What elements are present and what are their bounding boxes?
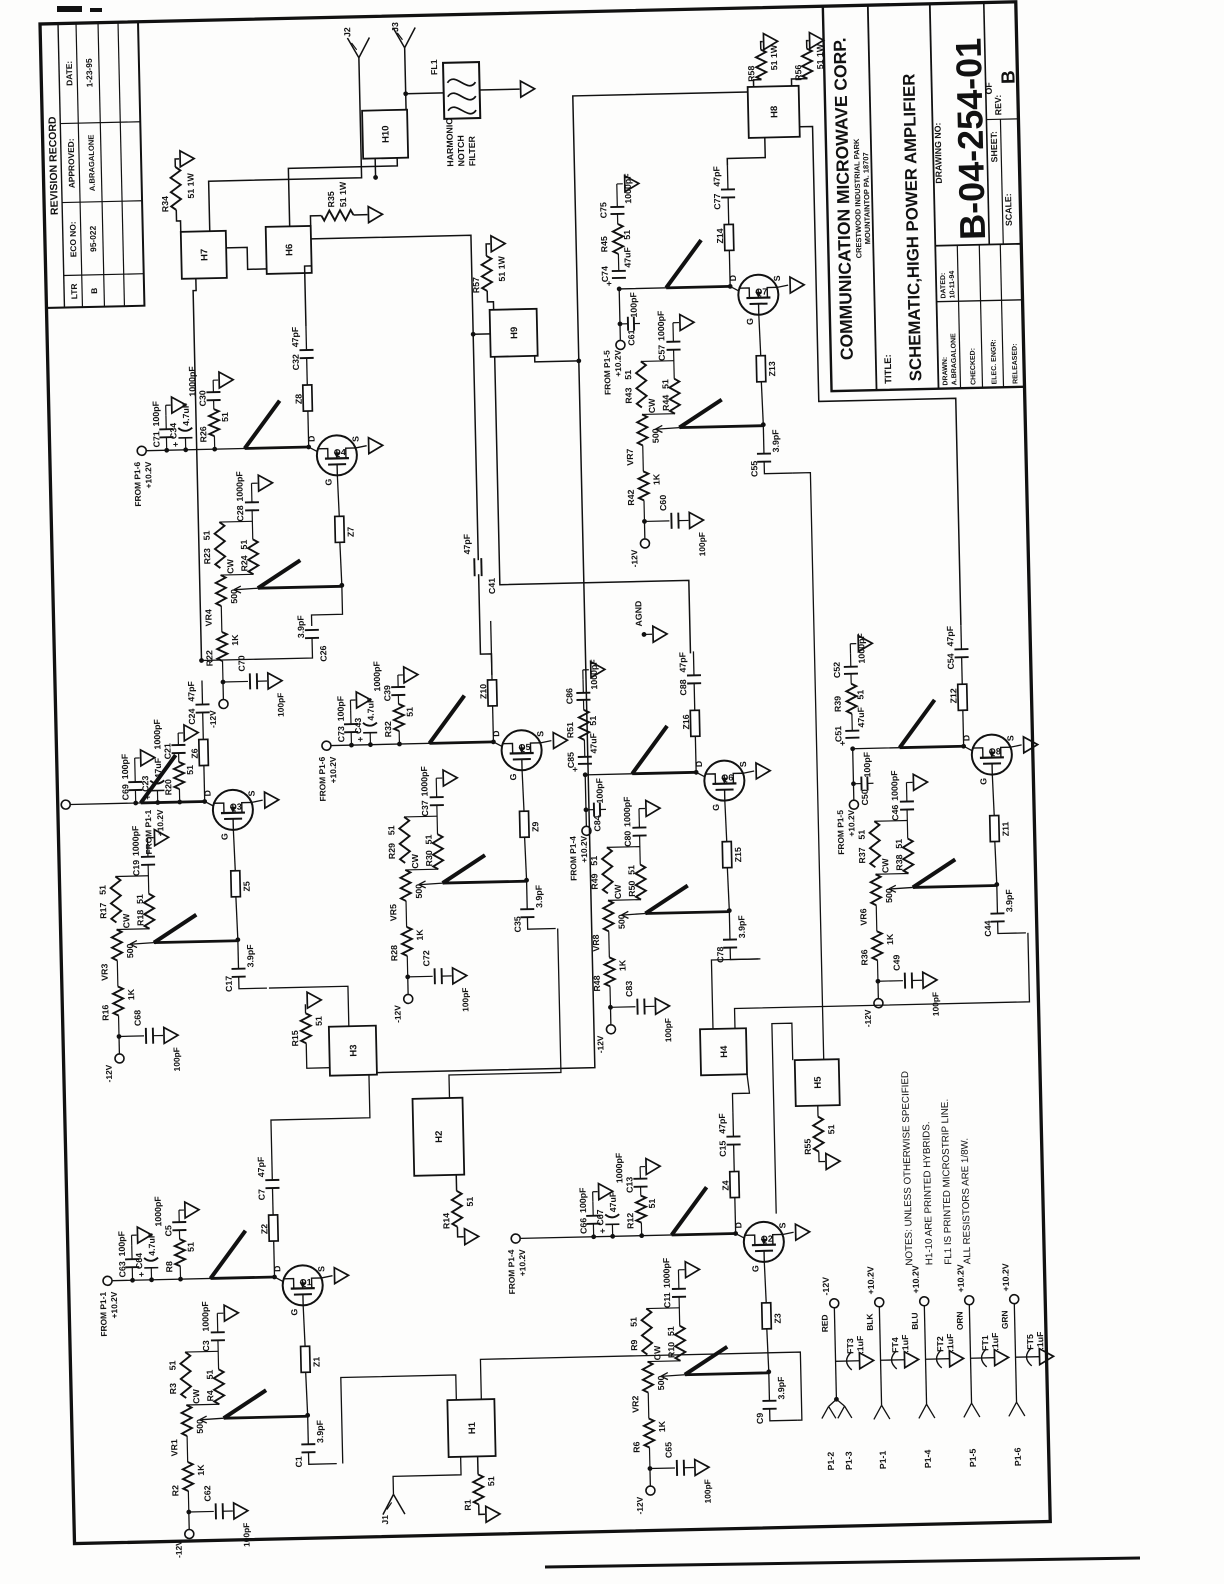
thick wiper bus: [655, 399, 764, 433]
strip line Z12: [948, 684, 968, 746]
svg-text:-12V: -12V: [173, 1540, 183, 1558]
svg-text:H3: H3: [348, 1044, 359, 1056]
ground S: [265, 792, 279, 808]
node D Q5: [491, 730, 503, 747]
resistor R29 51: [386, 817, 410, 864]
wire H4 to Q8 gate: [733, 933, 1030, 1029]
wire H2 to Q5 gate: [446, 928, 562, 1097]
svg-text:G: G: [508, 773, 518, 780]
svg-text:R50: R50: [627, 880, 637, 896]
strip line Z4: [720, 1171, 740, 1233]
svg-text:R6: R6: [631, 1441, 641, 1453]
svg-text:3.9pF: 3.9pF: [245, 944, 256, 968]
svg-text:Z15: Z15: [733, 847, 743, 862]
svg-text:C11: C11: [662, 1292, 672, 1308]
svg-text:P1-5: P1-5: [968, 1448, 978, 1467]
svg-text:HARMONIC: HARMONIC: [444, 118, 455, 167]
svg-text:51 1W: 51 1W: [815, 43, 826, 69]
resistor R56 51 1W: [791, 43, 826, 86]
terminal -12V: [821, 1277, 839, 1309]
svg-text:51: 51: [626, 865, 636, 875]
svg-text:R30: R30: [424, 850, 434, 866]
filter FL1: [405, 58, 480, 119]
svg-text:51: 51: [647, 1198, 657, 1208]
thick wiper bus: [621, 885, 730, 919]
potentiometer VR6 500: [857, 858, 895, 932]
svg-text:1K: 1K: [651, 473, 661, 485]
terminal +10.2V from P1-5: [835, 800, 860, 855]
capacitor C68 100pF: [118, 1009, 181, 1073]
capacitor C3 1000pF: [184, 1300, 226, 1370]
potentiometer VR3 500: [98, 913, 136, 987]
terminal -12V Q7: [628, 519, 650, 568]
svg-text:C30: C30: [197, 390, 207, 406]
capacitor C65 100pF: [649, 1441, 712, 1505]
svg-text:OF: OF: [984, 82, 994, 95]
svg-text:+10.2V: +10.2V: [910, 1265, 921, 1293]
strip line Z13: [755, 314, 777, 381]
svg-text:H4: H4: [719, 1045, 730, 1058]
svg-text:C35: C35: [512, 916, 522, 932]
thick wiper bus: [660, 1346, 769, 1380]
capacitor C66 100pF: [578, 1187, 601, 1240]
svg-text:FROM P1-1: FROM P1-1: [98, 1291, 109, 1336]
svg-text:H1: H1: [467, 1421, 478, 1434]
capacitor C32 47pF: [290, 326, 314, 386]
drawn cell: [940, 271, 959, 386]
ground R58: [760, 33, 777, 49]
svg-text:P1-1: P1-1: [878, 1450, 888, 1469]
svg-text:1K: 1K: [657, 1420, 667, 1432]
capacitor C77 47pF: [711, 165, 735, 225]
svg-text:G: G: [289, 1308, 299, 1315]
ground R15: [305, 992, 321, 1013]
svg-text:R22: R22: [204, 650, 214, 666]
capacitor C61 100pF: [619, 291, 640, 345]
stray page edge line bottom: [545, 1558, 1140, 1567]
svg-text:C68: C68: [132, 1010, 142, 1026]
resistor R9 51: [628, 1308, 652, 1355]
pin P1-6: [999, 1304, 1026, 1466]
svg-text:3.9pF: 3.9pF: [776, 1376, 787, 1400]
svg-text:C75: C75: [598, 202, 608, 218]
svg-text:Z6: Z6: [189, 748, 199, 759]
svg-text:4.7uF: 4.7uF: [146, 1232, 157, 1256]
checked cell: [970, 348, 978, 385]
svg-text:VR3: VR3: [99, 963, 109, 980]
resistor R24 51: [220, 539, 259, 575]
ground R14: [457, 1226, 478, 1244]
node gate Q5: [523, 837, 529, 882]
svg-text:.1uF: .1uF: [945, 1333, 955, 1352]
ground R34: [175, 151, 194, 167]
thick diagonal: [899, 700, 936, 748]
resistor R17 51: [97, 876, 121, 923]
svg-text:C72: C72: [421, 950, 431, 966]
feedthrough FT4 .1uF: [880, 1334, 919, 1370]
capacitor C72 100pF: [407, 949, 470, 1013]
ground S: [756, 763, 770, 779]
potentiometer VR5 500: [387, 853, 425, 927]
label G: [978, 778, 988, 785]
svg-text:C37: C37: [420, 800, 430, 816]
wire H10 top input: [373, 158, 378, 180]
svg-text:1000pF: 1000pF: [661, 1257, 672, 1288]
wire Q2 out to H4: [732, 1074, 750, 1112]
terminal -12V Q2: [634, 1466, 656, 1515]
svg-text:51: 51: [186, 1242, 196, 1252]
svg-text:100pF: 100pF: [241, 1523, 252, 1547]
wire H1 to Q2 gate: [480, 1352, 801, 1427]
svg-text:51 1W: 51 1W: [496, 255, 507, 281]
ground S: [334, 1267, 348, 1283]
terminal +10.2V: [955, 1264, 973, 1305]
node gate Q8: [993, 841, 999, 886]
resistor R1 51: [462, 1456, 497, 1511]
label S: [316, 1266, 332, 1278]
capacitor C83 100pF: [610, 980, 673, 1044]
svg-text:Q5: Q5: [518, 742, 530, 752]
svg-text:S: S: [246, 790, 256, 796]
svg-text:+10.2V: +10.2V: [955, 1264, 966, 1292]
svg-text:C21: C21: [162, 743, 172, 759]
svg-text:H9: H9: [509, 327, 520, 339]
svg-text:B-04-254-01: B-04-254-01: [948, 37, 994, 240]
svg-text:+10.2V: +10.2V: [517, 1249, 528, 1276]
pin P1-2/P1-3: [821, 1397, 854, 1471]
svg-text:47pF: 47pF: [945, 625, 955, 646]
svg-text:C32: C32: [291, 354, 301, 370]
rev cell: [992, 70, 1020, 115]
svg-text:FT1: FT1: [980, 1335, 990, 1351]
svg-text:DATED:: DATED:: [940, 273, 948, 299]
svg-text:C5: C5: [163, 1225, 173, 1237]
potentiometer VR7 500: [624, 398, 662, 472]
svg-text:R24: R24: [239, 555, 249, 571]
svg-text:51: 51: [486, 1476, 496, 1486]
svg-text:Z9: Z9: [530, 821, 540, 832]
capacitor C44 3.9pF: [982, 884, 1015, 937]
svg-text:FT2: FT2: [935, 1336, 945, 1352]
ground: [135, 750, 155, 768]
node gate Q1: [304, 1372, 310, 1417]
ground: [147, 829, 168, 845]
wire H5 to Q7 gate: [792, 473, 823, 1060]
node D Q2: [733, 1222, 745, 1239]
svg-text:H10: H10: [380, 125, 391, 143]
svg-text:FILTER: FILTER: [467, 135, 478, 166]
svg-text:51: 51: [202, 530, 212, 540]
svg-text:FT4: FT4: [890, 1337, 900, 1353]
svg-text:R14: R14: [441, 1213, 451, 1229]
strip line Z6: [189, 739, 209, 801]
wire H4 to Q6 gate: [711, 959, 762, 1029]
svg-text:+10.2V: +10.2V: [109, 1291, 120, 1318]
svg-text:Z14: Z14: [715, 228, 725, 243]
ground S: [1023, 737, 1037, 753]
capacitor C23 4.7uF: [140, 757, 165, 805]
strip line Z9: [519, 770, 541, 837]
svg-text:SHEET:: SHEET:: [989, 131, 1000, 163]
svg-text:+10.2V: +10.2V: [328, 756, 339, 783]
wire +10.2V feed Q7: [617, 284, 732, 340]
wire +10.2V feed Q8: [850, 744, 965, 800]
svg-text:4.7uF: 4.7uF: [365, 697, 376, 721]
svg-text:Z13: Z13: [767, 361, 777, 376]
ground: [678, 1261, 699, 1277]
capacitor C34 4.7uF: [168, 402, 193, 453]
strip line Z1: [300, 1305, 322, 1372]
wire H10 to J3: [402, 48, 408, 110]
ground: [684, 1459, 709, 1476]
resistor R15 51: [290, 1013, 330, 1069]
capacitor C39 1000pF: [372, 660, 406, 705]
ground FL1: [479, 81, 534, 98]
ground: [398, 667, 418, 683]
svg-text:.1uF: .1uF: [1035, 1331, 1045, 1350]
svg-text:C85: C85: [566, 752, 576, 768]
svg-text:C26: C26: [318, 645, 328, 661]
svg-text:Z11: Z11: [1000, 821, 1010, 836]
capacitor C88 47pF: [677, 651, 701, 711]
svg-text:47pF: 47pF: [290, 326, 300, 347]
ground R55: [819, 1151, 840, 1169]
svg-text:C44: C44: [983, 920, 993, 936]
svg-text:R9: R9: [629, 1339, 639, 1351]
ground: [442, 968, 467, 985]
svg-text:R18: R18: [135, 910, 145, 926]
thick wiper bus: [888, 859, 997, 893]
label S: [535, 731, 551, 743]
node gate Q2: [765, 1329, 771, 1374]
capacitor C84 100pF: [585, 777, 606, 831]
wire Q6 out to H9: [495, 352, 691, 657]
svg-text:1K: 1K: [617, 959, 627, 971]
svg-text:C66: C66: [578, 1218, 588, 1234]
resistor R58 51 1W: [746, 44, 780, 87]
svg-text:R32: R32: [383, 721, 393, 737]
terminal -12V Q8: [862, 979, 884, 1028]
svg-text:100pF: 100pF: [151, 400, 162, 426]
resistor R22 1K: [204, 632, 241, 683]
svg-text:Z3: Z3: [772, 1313, 782, 1324]
transistor Q6: [704, 760, 745, 801]
capacitor C15 47pF: [717, 1112, 741, 1172]
resistor R45 51: [599, 224, 633, 272]
svg-text:Z12: Z12: [948, 688, 958, 703]
hybrid H2: [413, 1098, 465, 1176]
svg-text:51: 51: [220, 412, 230, 422]
svg-text:G: G: [323, 478, 333, 485]
svg-text:-12V: -12V: [104, 1064, 114, 1082]
svg-text:47uF: 47uF: [588, 732, 598, 753]
capacitor C85 47uF: [565, 732, 599, 772]
svg-text:VR6: VR6: [858, 908, 868, 925]
terminal +10.2V: [910, 1265, 928, 1306]
wire H3 rail to H8: [355, 92, 770, 1073]
svg-text:1000pF: 1000pF: [130, 825, 141, 856]
wire H7 to J2: [206, 58, 363, 231]
svg-text:500: 500: [229, 589, 239, 604]
svg-text:C61: C61: [626, 329, 636, 345]
capacitor C64 4.7uF: [133, 1232, 158, 1283]
svg-text:C77: C77: [712, 193, 722, 209]
strip line Z5: [230, 829, 252, 896]
svg-text:VR5: VR5: [388, 904, 398, 921]
svg-text:100pF: 100pF: [578, 1187, 589, 1213]
svg-text:500: 500: [616, 914, 626, 929]
svg-text:C52: C52: [832, 662, 842, 678]
resistor R14 51: [440, 1174, 475, 1229]
wire gate input: [764, 461, 792, 474]
svg-text:S: S: [316, 1266, 326, 1272]
capacitor C9 3.9pF: [754, 1371, 787, 1424]
svg-text:RED: RED: [820, 1314, 830, 1332]
hybrid H9: [490, 309, 538, 357]
strip line Z7: [334, 475, 356, 542]
svg-text:C24: C24: [187, 708, 197, 724]
svg-text:BLU: BLU: [909, 1312, 919, 1329]
svg-text:C60: C60: [658, 495, 668, 511]
svg-text:CW: CW: [410, 853, 420, 869]
svg-text:J3: J3: [390, 22, 400, 32]
svg-text:1000pF: 1000pF: [614, 1152, 625, 1183]
wire Q8 out to H8: [800, 123, 961, 628]
svg-text:P1-4: P1-4: [923, 1449, 933, 1468]
ground: [153, 1027, 178, 1044]
capacitor C35 3.9pF: [512, 880, 545, 933]
svg-text:3.9pF: 3.9pF: [295, 615, 306, 639]
svg-text:47uF: 47uF: [608, 1191, 618, 1212]
label G: [750, 1265, 760, 1272]
terminal +10.2V from P1-6: [132, 446, 154, 507]
svg-text:P1-3: P1-3: [844, 1451, 854, 1470]
svg-text:100pF: 100pF: [460, 987, 471, 1011]
svg-text:+10.2V: +10.2V: [846, 809, 857, 836]
ground: [257, 673, 282, 690]
svg-text:100pF: 100pF: [702, 1479, 713, 1503]
svg-text:S: S: [738, 761, 748, 767]
svg-text:C83: C83: [624, 981, 634, 997]
svg-text:Z10: Z10: [478, 684, 488, 699]
wire Q3 out to Q4: [199, 638, 313, 663]
pin P1-1: [864, 1307, 891, 1469]
svg-text:APPROVED:: APPROVED:: [66, 138, 77, 188]
svg-text:ORN: ORN: [954, 1311, 964, 1330]
svg-text:C64: C64: [134, 1253, 144, 1269]
svg-text:1000pF: 1000pF: [656, 310, 667, 341]
strip line Z11: [989, 774, 1011, 841]
ground: [912, 972, 937, 989]
resistor R48 1K: [591, 957, 628, 1008]
resistor R55 51: [802, 1105, 837, 1155]
ground: [131, 1227, 151, 1245]
strip line Z10: [478, 680, 498, 742]
svg-text:NOTCH: NOTCH: [456, 135, 467, 167]
svg-text:10-11-94: 10-11-94: [949, 271, 957, 299]
wire gate input: [308, 1452, 336, 1465]
svg-text:CW: CW: [880, 858, 890, 874]
svg-text:FT3: FT3: [845, 1338, 855, 1354]
svg-text:R2: R2: [170, 1485, 180, 1497]
capacitor C75 1000pF: [598, 173, 634, 225]
strip line Z15: [721, 800, 743, 867]
svg-text:+: +: [597, 1228, 607, 1233]
resistor R36 1K: [859, 931, 896, 982]
svg-text:C73: C73: [336, 726, 346, 742]
svg-text:47pF: 47pF: [677, 651, 687, 672]
resistor R57 51 1W: [470, 255, 507, 310]
ground: [673, 314, 694, 330]
svg-text:C51: C51: [833, 726, 843, 742]
svg-text:500: 500: [650, 428, 660, 443]
svg-text:-12V: -12V: [821, 1277, 831, 1296]
svg-text:R37: R37: [857, 847, 867, 863]
wire Q5 out: [479, 574, 492, 675]
ground: [906, 774, 927, 790]
svg-text:CW: CW: [652, 1345, 662, 1361]
svg-text:FT5: FT5: [1025, 1334, 1035, 1350]
resistor R6 1K: [631, 1418, 668, 1469]
transistor Q8: [971, 734, 1012, 775]
svg-text:47uF: 47uF: [622, 246, 632, 267]
capacitor C30 1000pF: [187, 365, 221, 410]
capacitor C80 1000pF: [606, 796, 648, 866]
svg-text:DATE:: DATE:: [64, 61, 75, 86]
ground R1: [479, 1504, 500, 1522]
node D Q4: [306, 435, 318, 452]
svg-text:47uF: 47uF: [856, 706, 866, 727]
label S: [1005, 735, 1021, 747]
svg-text:.1uF: .1uF: [855, 1335, 865, 1354]
thick wiper bus: [129, 914, 238, 948]
potentiometer VR4 500: [202, 558, 240, 632]
svg-text:C55: C55: [749, 461, 759, 477]
svg-text:51: 51: [98, 885, 108, 895]
svg-text:C88: C88: [678, 679, 688, 695]
svg-text:G: G: [978, 778, 988, 785]
svg-text:H2: H2: [434, 1131, 445, 1143]
svg-text:G: G: [711, 804, 721, 811]
terminal +10.2V from P1-5: [601, 340, 626, 395]
hybrid H6: [266, 226, 312, 274]
capacitor C57 1000pF: [640, 310, 682, 380]
terminal +10.2V from P1-1: [97, 1276, 119, 1337]
svg-text:51 1W: 51 1W: [185, 172, 196, 198]
ground: [644, 998, 669, 1015]
label S: [350, 436, 366, 448]
wire +10.2V feed Q3: [71, 801, 205, 804]
svg-text:3.9pF: 3.9pF: [770, 429, 781, 453]
svg-text:Q8: Q8: [989, 746, 1001, 756]
potentiometer VR8 500: [590, 884, 628, 958]
hybrid H10: [362, 110, 408, 159]
connector J3: [390, 22, 416, 48]
svg-text:1000pF: 1000pF: [152, 718, 163, 749]
elec engr cell: [990, 339, 998, 384]
svg-text:R29: R29: [387, 843, 397, 859]
capacitor C70 100pF: [222, 654, 285, 718]
svg-text:FROM P1-6: FROM P1-6: [317, 756, 328, 801]
svg-text:+10.2V: +10.2V: [613, 349, 624, 376]
svg-text:FL1: FL1: [429, 59, 439, 75]
svg-text:H8: H8: [769, 106, 780, 118]
wire H1 to Q1 gate: [341, 1375, 458, 1464]
svg-text:CHECKED:: CHECKED:: [970, 348, 978, 385]
svg-text:A.BRAGALONE: A.BRAGALONE: [87, 135, 97, 192]
node D Q7: [727, 275, 739, 292]
wire Q3 out to H7: [193, 279, 205, 661]
